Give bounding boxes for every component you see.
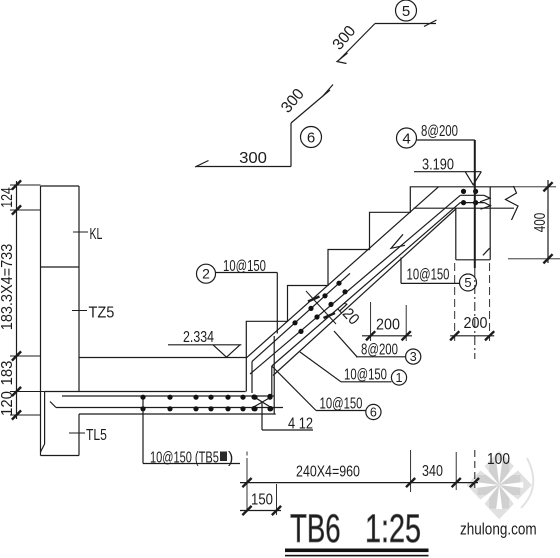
svg-text:124: 124 (0, 187, 16, 208)
svg-text:2: 2 (202, 266, 210, 282)
svg-text:340: 340 (422, 463, 443, 481)
svg-text:10@150: 10@150 (344, 364, 387, 382)
svg-text:zhulong.com: zhulong.com (460, 520, 537, 539)
svg-text:1: 1 (396, 371, 403, 385)
svg-text:183: 183 (0, 361, 16, 386)
svg-text:150: 150 (251, 491, 273, 508)
svg-text:10@150: 10@150 (223, 256, 266, 274)
svg-text:400: 400 (530, 213, 548, 233)
svg-text:10@150: 10@150 (320, 393, 363, 411)
svg-text:2.334: 2.334 (183, 329, 214, 347)
svg-text:6: 6 (370, 406, 377, 420)
svg-text:8@200: 8@200 (421, 121, 458, 139)
svg-text:4: 4 (402, 130, 410, 147)
svg-text:): ) (228, 450, 233, 467)
svg-text:8@200: 8@200 (361, 340, 398, 358)
svg-text:120: 120 (0, 391, 16, 416)
svg-text:5: 5 (464, 275, 471, 290)
svg-text:1:25: 1:25 (365, 506, 421, 551)
svg-text:5: 5 (402, 3, 410, 20)
svg-text:240X4=960: 240X4=960 (296, 463, 360, 481)
svg-text:183.3X4=733: 183.3X4=733 (0, 244, 16, 330)
svg-text:TZ5: TZ5 (89, 304, 115, 322)
svg-text:4 12: 4 12 (288, 415, 313, 433)
svg-text:10@150: 10@150 (407, 264, 450, 282)
svg-text:6: 6 (307, 129, 315, 146)
svg-text:200: 200 (376, 316, 400, 334)
svg-text:200: 200 (464, 314, 488, 332)
svg-text:TB6: TB6 (290, 507, 341, 551)
svg-text:10@150 (TB5: 10@150 (TB5 (150, 449, 219, 466)
svg-text:300: 300 (239, 149, 267, 167)
svg-text:TL5: TL5 (86, 426, 107, 444)
svg-text:KL: KL (90, 225, 103, 243)
svg-text:100: 100 (487, 451, 510, 468)
svg-text:3: 3 (410, 350, 417, 364)
